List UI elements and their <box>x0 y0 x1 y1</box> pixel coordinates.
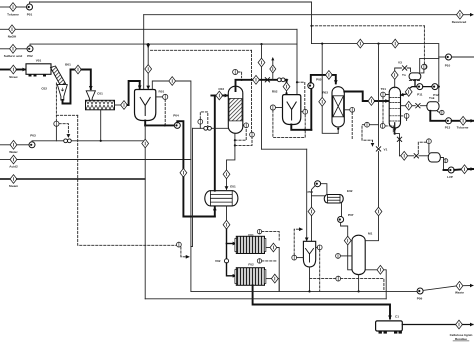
wire to bottoms diamond <box>400 155 401 157</box>
agitator Y in R2 <box>287 102 296 120</box>
valve X T1 bottoms <box>397 137 401 141</box>
wire waste exit edge <box>463 285 473 287</box>
wire acid branch to diamond <box>147 48 149 65</box>
stream marker acid to R3 loop <box>258 58 265 67</box>
wire solids into R1 top <box>139 81 141 89</box>
valve X on toluene recycle <box>376 147 380 151</box>
svg-text:E01: E01 <box>230 185 236 189</box>
wire NaOH feed line y=29.3 <box>0 28 9 30</box>
stream marker C3 feed <box>326 71 333 80</box>
instrument TI R1 <box>163 94 168 99</box>
wire residue exit edge <box>463 324 474 326</box>
junction C2 bottoms tap 2 <box>234 144 236 146</box>
stream marker deionized water <box>457 10 464 19</box>
signal dashed under condenser <box>409 80 419 82</box>
wire R3 bottoms <box>309 267 311 292</box>
signal dashed chute drop <box>55 83 57 121</box>
wire toluene drop x=311.5 <box>311 2 313 44</box>
junction signal tap R2 feed <box>296 81 298 83</box>
instrument LI R2 <box>303 109 308 114</box>
svg-text:P01: P01 <box>27 12 33 16</box>
condenser drum Tnk small <box>409 73 421 80</box>
instrument TI C3 <box>350 107 355 112</box>
wire bottoms jog down <box>395 134 400 156</box>
svg-text:Residue: Residue <box>455 337 467 341</box>
signal dashed F2 <box>262 260 278 262</box>
wire toluene exit edge <box>467 120 474 122</box>
wire C2 bottoms jog <box>227 133 235 170</box>
stream marker acid to R1 <box>145 65 152 74</box>
svg-text:P10: P10 <box>445 64 451 68</box>
junction acid tee <box>260 43 262 45</box>
wire feed arrow into C2 <box>223 95 228 97</box>
wire to product diamond <box>452 120 460 122</box>
svg-text:T01: T01 <box>381 87 387 91</box>
wire acid run y=149.2 <box>262 148 307 150</box>
wire C2 bottoms into E1 hot side <box>226 179 228 190</box>
svg-text:Acid2: Acid2 <box>9 165 18 169</box>
wire into R2 top <box>286 91 288 94</box>
instrument PI C3 <box>365 122 370 127</box>
column C02 packed stripper <box>228 86 243 133</box>
svg-text:P11: P11 <box>417 93 423 97</box>
junction reflux header <box>438 86 440 88</box>
signal dashed C2 level A <box>235 128 246 140</box>
valve X bottoms 2 <box>414 154 418 158</box>
svg-text:P05: P05 <box>316 78 322 82</box>
trays dashed in T01 <box>390 97 400 99</box>
wire down to F2 branch <box>226 244 228 259</box>
pump P03 wash water <box>29 142 35 148</box>
wire R1 liquid down leg x=145.2 <box>144 125 146 139</box>
wire acid into R1 top <box>147 73 149 88</box>
stream marker toluene product <box>460 116 467 125</box>
wire wash water feed y=144.8 <box>0 144 10 146</box>
signal dashed PI to valve <box>362 125 373 146</box>
wire F1 filtrate <box>266 247 270 249</box>
svg-text:Steam: Steam <box>9 184 19 188</box>
wire overhead corner to R2 <box>286 80 288 83</box>
wire PI to toluene line <box>369 124 378 126</box>
svg-text:P09: P09 <box>417 297 423 301</box>
svg-text:E02: E02 <box>347 189 353 193</box>
stream marker milled straw <box>75 65 82 74</box>
pump P02 acid <box>27 46 33 52</box>
wire E2 tube out to pump P06 <box>321 184 327 195</box>
junction R2 bottoms <box>303 129 305 131</box>
wire NaOH drop into reactor R2 <box>296 29 298 94</box>
signal dashed R3 left <box>294 229 302 255</box>
wire C3 bottoms recycle up x=322.2 <box>322 44 338 134</box>
junction T1 bottoms <box>394 133 396 135</box>
reactor R1 vessel <box>135 90 156 121</box>
pump P09 waste <box>417 288 423 294</box>
instrument PI F1 <box>257 229 261 233</box>
wire reflux pumps <box>415 80 417 87</box>
junction acid to R1 <box>147 43 149 45</box>
instrument PI F2 <box>257 259 261 263</box>
signal dashed R2 feed to LI <box>297 82 305 109</box>
wire arrow into C3 top <box>332 75 335 84</box>
svg-text:V02: V02 <box>215 259 221 263</box>
wire heavies exit edge <box>468 168 474 170</box>
stream marker R2 feed <box>283 82 290 91</box>
pump P12 reflux <box>432 84 438 90</box>
hopper funnel F-1 <box>57 85 67 100</box>
wire wastewater exit <box>452 56 474 58</box>
stream marker F1 filtrate <box>270 243 277 252</box>
pump P04 R1 bottoms <box>174 122 180 128</box>
svg-text:M1: M1 <box>368 232 373 236</box>
instrument TI T2 <box>336 254 341 259</box>
wire acid branch arrow <box>147 44 149 47</box>
packing hatched in C02 <box>229 99 242 121</box>
valve X overhead <box>402 66 406 70</box>
wire F2 filtrate <box>266 278 271 280</box>
instrument PC condenser <box>422 64 427 69</box>
stream marker P07 to residue <box>377 265 384 274</box>
accumulator drum Tnk2 <box>427 102 439 111</box>
wire down then right under T2 <box>348 245 377 270</box>
svg-text:R03: R03 <box>322 91 328 95</box>
svg-text:P04: P04 <box>173 114 179 118</box>
instrument TI T1 <box>404 114 409 119</box>
wire to X valve <box>412 105 415 107</box>
stream marker R1 drain <box>142 139 149 148</box>
wire C2 overhead thick y=79.8 <box>236 80 287 91</box>
instrument TC on R1 <box>156 96 163 98</box>
wire deionized water to edge <box>463 14 473 16</box>
stream marker steam <box>10 175 17 184</box>
instrument FI C2 side <box>198 119 203 124</box>
signal dashed C3 <box>351 112 353 140</box>
svg-text:Water: Water <box>9 150 18 154</box>
junction valve dot R1 bottoms <box>164 124 166 126</box>
wire reflux to diamond <box>410 87 417 89</box>
wire arrow into F1 <box>227 243 236 245</box>
stream marker NaOH feed <box>9 25 16 34</box>
junction screw underflow <box>100 140 102 142</box>
svg-text:P07: P07 <box>348 213 354 217</box>
signal dashed y=25.8 <box>312 25 425 27</box>
agitator in R3 <box>306 249 314 263</box>
junction dot R2 top <box>285 92 287 94</box>
wire dilution water feed y=159.5 <box>0 159 10 161</box>
wire side line down x=192.5 merging <box>191 128 193 246</box>
wire R1 bottoms to pump <box>145 124 174 126</box>
signal dashed drop x=424.4 <box>423 26 425 64</box>
svg-text:V1: V1 <box>384 147 388 151</box>
junction header to decanter branch <box>377 43 379 45</box>
wire to wastewater pump <box>439 56 446 58</box>
stream marker C3 overhead <box>368 97 375 106</box>
wire R1 vent down x=190.9 <box>176 81 191 291</box>
wire screw conveyor underflow <box>100 110 102 141</box>
wire to heavies diamond <box>454 168 461 171</box>
wire to pump P03 <box>17 144 29 146</box>
packing X in C04 <box>333 96 344 117</box>
wire P04 discharge down <box>177 121 183 168</box>
stream marker C2 overhead <box>253 75 260 84</box>
wire steam feed y=179 thick <box>0 178 10 180</box>
reactor R2 vessel <box>283 95 301 125</box>
signal dashed T2 loop left <box>310 278 336 280</box>
heat exchanger E01 shell-tube <box>205 191 238 206</box>
wire T2 bottoms <box>358 275 360 292</box>
signal dashed drop x=251.5 <box>251 50 253 131</box>
wire recycle drop upper x=378.5 <box>378 44 380 147</box>
instrument LC T1 <box>380 124 385 129</box>
wire toluene product <box>430 111 445 121</box>
crystallizer R3 vessel <box>303 241 315 267</box>
wire P06 loop into E2 left <box>312 195 325 197</box>
valve twin-circle C2 side <box>204 126 208 130</box>
wire T1 overhead <box>394 79 396 87</box>
svg-text:F02: F02 <box>248 262 254 266</box>
signal dashed PC to line <box>238 72 242 78</box>
signal dashed T2 loop <box>341 279 384 290</box>
vent line with diamond above overhead <box>272 60 274 80</box>
pump P07 <box>338 217 344 223</box>
stream marker E1 outlet <box>223 220 230 229</box>
instrument LI accumulator <box>440 110 444 114</box>
valve circle on F2 feed <box>224 259 228 263</box>
wire P06 discharge down to R3 <box>312 186 316 241</box>
wire reflux into T1 <box>401 94 407 95</box>
wire acid header y=44.1 <box>30 44 297 46</box>
drum T02 decanter <box>352 235 365 274</box>
stream marker C2 feed <box>216 91 223 100</box>
svg-text:P06: P06 <box>307 190 313 194</box>
signal dashed to wash line <box>181 247 189 257</box>
instrument TI R3 <box>292 255 297 260</box>
wire drop x=306.7 into crystallizer R3 <box>306 149 308 240</box>
agitator Y in R1 <box>140 98 150 116</box>
wire F2 cake thick to truck <box>253 285 390 318</box>
wire C3 overhead to T1 <box>344 92 368 102</box>
svg-text:C02: C02 <box>41 87 47 91</box>
truck V-101 straw delivery <box>26 64 51 75</box>
instrument WI hopper <box>54 121 59 126</box>
wire water drop into reactor R1 <box>143 15 145 89</box>
wire into T2 right <box>365 216 378 241</box>
signal dashed T1 left <box>382 97 384 123</box>
svg-text:Tn: Tn <box>402 73 406 77</box>
wire drop x=386.2 to bottom line <box>384 270 386 299</box>
wire FI stem <box>199 124 201 128</box>
svg-text:Tnk: Tnk <box>429 96 435 100</box>
column T01 vessel <box>389 87 400 128</box>
stream marker S-21 <box>357 39 364 48</box>
wire header corner and drop x=438.8 <box>399 44 439 102</box>
stream marker to slurry line <box>344 236 351 245</box>
svg-text:P03: P03 <box>30 134 36 138</box>
wire arrow into F2 <box>227 263 236 276</box>
stream marker Toluene feed <box>10 3 17 12</box>
instrument FC filtrate <box>177 242 182 247</box>
stream marker F2 filtrate <box>271 274 278 283</box>
stream marker C3 bottoms recycle <box>319 97 326 106</box>
wire F1 filtrate down <box>277 248 279 292</box>
wire toluene to pump P1 <box>16 6 26 8</box>
wire overhead to condenser valve <box>395 68 402 71</box>
stream marker T1 bottoms <box>401 151 408 160</box>
wire solids to hopper 2 <box>81 70 90 90</box>
wire riser top to diamond <box>311 75 326 83</box>
signal dashed y=50.3 <box>151 49 252 51</box>
stream marker vent <box>270 65 276 73</box>
junction toluene/signal tap <box>310 25 312 27</box>
truck C-102 residue <box>376 321 403 331</box>
wire T1 bottoms <box>394 123 396 134</box>
wire drum outlet <box>440 158 443 171</box>
wire solids line bottom y=298.8 <box>145 298 386 300</box>
instrument LC on condenser <box>422 64 427 69</box>
instrument LI C2 <box>244 123 249 128</box>
wire overhead feed into T1 <box>375 100 389 102</box>
wire acid drop x=261.5 lower <box>261 67 263 149</box>
stream marker screw discharge <box>121 101 128 110</box>
signal dashed WI to valve <box>59 124 68 138</box>
stream marker heavies <box>461 165 468 174</box>
pump P06 crystallizer feed <box>315 181 321 187</box>
wire C2 side valve line y=128.3 <box>193 127 229 129</box>
valve rotary twin on overhead <box>277 78 281 82</box>
wire T1 side draw y=105.7 <box>401 105 406 107</box>
wire solids U-path from funnel to diamond <box>63 70 75 104</box>
stream marker recycle to T2 <box>375 207 382 216</box>
wire straw feed line y=69.5 <box>0 69 10 71</box>
instrument PI Tnk3 <box>427 139 432 144</box>
wire to filter press F1 <box>226 229 228 243</box>
instrument LC T2 <box>336 276 341 281</box>
stream marker C2 bottoms <box>223 170 230 179</box>
wire into drum Tnk3 <box>419 155 428 157</box>
wire to bottoms valve <box>408 155 414 157</box>
instrument pair right of C2 <box>242 124 245 126</box>
svg-text:C01: C01 <box>97 92 103 96</box>
pump P01 toluene <box>27 4 33 10</box>
wire header segment <box>364 43 392 45</box>
wire into condenser <box>407 68 410 72</box>
wire acid drop x=261.5 upper <box>261 44 263 58</box>
svg-text:P02: P02 <box>27 54 33 58</box>
column C04 vessel <box>332 87 344 127</box>
svg-text:P13: P13 <box>445 126 451 130</box>
svg-text:C1: C1 <box>395 315 399 319</box>
pump P11 reflux <box>417 84 423 90</box>
wire E2 shell out right to pump P07 <box>341 203 343 216</box>
valve X side draw <box>416 104 420 108</box>
stream marker straw feed <box>10 65 17 74</box>
svg-text:V3: V3 <box>398 61 402 65</box>
instrument LI R3 <box>317 245 322 250</box>
wire filtrate line y=291.4 <box>191 290 417 292</box>
wire waste to diamond <box>423 286 456 290</box>
svg-text:R01: R01 <box>159 90 165 94</box>
filter press F02 <box>236 268 264 286</box>
instrument on outlet <box>444 159 448 163</box>
stream marker sulfuric acid feed <box>10 44 17 53</box>
signal dashed R2 loop <box>273 110 305 137</box>
wire solids riser to R1 <box>127 81 139 105</box>
instrument PI T1 <box>381 92 386 97</box>
junction recycle to header <box>321 43 323 45</box>
stream marker waste water <box>456 281 463 290</box>
wire recovered toluene header y=43.6 <box>312 43 357 45</box>
heat exchanger E02 <box>324 195 343 204</box>
signal dashed C2 level B <box>235 137 252 145</box>
wire slurry run to E1 <box>183 177 214 216</box>
pump P13 toluene product <box>446 118 452 124</box>
wire PI stem to drum <box>428 144 430 153</box>
wire NaOH to x=297 <box>15 28 297 30</box>
svg-text:Straw: Straw <box>9 75 18 79</box>
pump P10 wastewater <box>446 54 452 60</box>
pump P05 R2 bottoms <box>308 83 314 89</box>
svg-text:Toluene: Toluene <box>7 12 19 16</box>
svg-text:L#P: L#P <box>447 175 453 179</box>
instrument LC C2 <box>250 132 255 137</box>
node toluene feed line <box>0 6 10 8</box>
svg-text:NaOH: NaOH <box>8 35 17 39</box>
stream marker wash water <box>10 140 17 149</box>
wire truck2 exit <box>402 324 455 326</box>
wire toluene header y=2 <box>30 2 312 4</box>
junction T2 bottoms on line <box>358 290 360 292</box>
stream marker R1 vent <box>169 77 176 86</box>
junction R3 bottoms on line <box>308 290 310 292</box>
stream marker reflux <box>405 88 412 97</box>
stream marker R3 feed <box>308 207 315 216</box>
filter press F01 <box>236 236 264 253</box>
valve X on overhead <box>265 78 269 82</box>
svg-text:Waste: Waste <box>455 291 464 295</box>
stream marker T1 overhead <box>391 71 398 80</box>
svg-text:R02: R02 <box>272 90 278 94</box>
stream marker dilution water <box>10 155 17 164</box>
wire steam run <box>17 178 145 180</box>
wire deionized water line y=14.7 <box>144 14 457 16</box>
chute hatched conveyor <box>51 66 66 86</box>
wire into accumulator <box>421 105 427 107</box>
wire E1 hot outlet down to filters <box>226 206 228 220</box>
stream marker R1 slurry <box>180 168 187 177</box>
wire drain down to conveyor line <box>144 148 146 299</box>
svg-text:B01: B01 <box>65 63 71 67</box>
instrument TI C3 <box>344 109 349 111</box>
wire F2 filtrate down <box>277 279 280 292</box>
instrument PC C2 <box>233 69 238 74</box>
wire straw to truck <box>17 69 26 71</box>
wire dilution water run <box>17 159 191 161</box>
wire R2 bottoms riser <box>291 125 311 130</box>
signal dashed F1 <box>262 232 280 240</box>
wire between reflux pumps <box>423 86 439 88</box>
svg-text:V01: V01 <box>36 59 42 63</box>
wire slurry into E1 bottom <box>214 207 216 216</box>
signal dashed down left x=78.4 <box>78 115 177 245</box>
wire R1 vapor outlet <box>152 81 168 90</box>
signal dashed top branch <box>56 114 77 116</box>
wire riser x=311.3 <box>310 89 312 130</box>
instrument TI R2 <box>270 105 275 110</box>
svg-text:C03: C03 <box>218 87 224 91</box>
wire sulfuric acid feed line y=48.8 <box>0 48 10 50</box>
wire C2 feed riser x=214.8 <box>214 96 216 191</box>
wire PC stem <box>421 69 424 73</box>
wire screw conveyor discharge <box>115 104 121 106</box>
